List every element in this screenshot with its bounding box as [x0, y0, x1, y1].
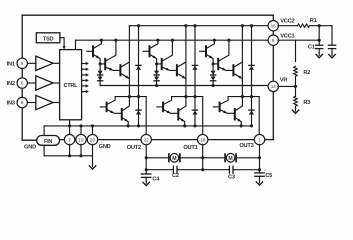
node — external GND junction 19	[79, 154, 82, 157]
transistor Q15 low-side output	[121, 109, 123, 120]
CTRL block U1	[60, 50, 82, 120]
node — VCC1 junction Q31 collector	[213, 39, 216, 42]
wire — IN1 pin to buffer	[27, 62, 36, 64]
diode D1c bias chain	[98, 71, 103, 75]
node — external GND junction 7	[68, 154, 71, 157]
wire — CTRL drive line 4	[82, 79, 87, 81]
wire — VCC1 feed into CTRL	[75, 40, 77, 49]
node — bias bus junction bridge 2	[155, 84, 158, 87]
node — GND bus junction pin7/CTRL	[68, 124, 71, 127]
node — output junction 3b	[250, 95, 253, 98]
wire — output column to OUT pin 1	[145, 97, 147, 135]
op-amp buffer A3 (IN3)	[36, 95, 53, 109]
node — Q25 emitter to GND bus	[183, 124, 186, 127]
arrowhead drive line 4	[86, 79, 89, 82]
wire — C3 to OUT3	[233, 169, 260, 171]
wire — VCC1 to R2	[295, 40, 297, 61]
wire — supply node down to C1	[318, 26, 320, 46]
svg-text:OUT1: OUT1	[183, 145, 197, 151]
resistor R2	[294, 66, 298, 76]
svg-text:C1: C1	[308, 45, 315, 51]
diode D1b lower clamp	[136, 110, 141, 114]
node — VCC2 rail junction bridge 2 clamp	[193, 24, 196, 27]
wire — CTRL drive line 3	[82, 74, 87, 76]
svg-text:5: 5	[21, 61, 24, 66]
wire — CTRL drive line 2	[82, 68, 87, 70]
capacitor C5	[255, 173, 264, 176]
wire — bridge 3 clamp diode column	[251, 26, 253, 126]
node — Q35 emitter to GND bus	[240, 124, 243, 127]
wire — VCC2 rail to pin 16	[129, 25, 268, 27]
pin 1 OUT3	[254, 134, 264, 144]
wire — C1 to ground	[318, 49, 320, 53]
svg-text:IN1: IN1	[7, 61, 15, 67]
svg-text:16: 16	[271, 23, 277, 28]
node — Q15 emitter to GND bus	[127, 124, 130, 127]
pin 18 OUT1	[198, 134, 208, 144]
diode D3d bias chain	[211, 77, 216, 81]
capacitor C1	[316, 45, 323, 48]
wire — CTRL drive line 1	[82, 63, 87, 65]
node — bias bus junction bridge 3	[212, 84, 215, 87]
wire — R1 to supply node	[310, 25, 333, 27]
svg-text:IN2: IN2	[7, 81, 15, 87]
wire — GND bus stub to pin	[69, 126, 71, 135]
motor M2 (OUT1-OUT3)	[225, 154, 236, 163]
transistor Q25 low-side output	[177, 109, 179, 120]
transistor Q34 low-side driver	[213, 106, 219, 108]
svg-text:OUT3: OUT3	[239, 143, 253, 149]
wire — C2 to OUT1	[177, 169, 203, 171]
capacitor C3	[229, 166, 233, 173]
pin 20 GND	[87, 134, 97, 144]
svg-text:C3: C3	[228, 174, 235, 180]
svg-text:1: 1	[258, 137, 261, 142]
wire — pin 7 to external GND bus	[69, 144, 71, 156]
wire — OUT2 to motor M1	[146, 157, 168, 159]
svg-text:OUT2: OUT2	[127, 145, 141, 151]
node — VCC1 junction Q11 collector	[100, 39, 103, 42]
pin 8 IN3	[17, 97, 27, 107]
wire — internal GND bus	[44, 125, 251, 127]
wire — OUT1 to motor M2	[203, 157, 225, 159]
wire — OUT2 column down to C4	[145, 144, 147, 174]
diode D1a upper clamp	[136, 65, 141, 69]
wire — IC outline right edge through VCC/VR pins	[272, 15, 274, 139]
node — OUT1 C2/C3 junction	[201, 168, 204, 171]
transistor Q14 low-side driver	[100, 106, 106, 108]
node — OUT2 C2 junction	[145, 168, 148, 171]
diode D2d bias chain	[154, 77, 159, 81]
capacitor (supply)	[328, 45, 335, 48]
node — VCC1 / supply junction	[318, 39, 321, 42]
svg-text:CTRL: CTRL	[64, 83, 79, 89]
wire — output column to OUT pin 3	[258, 97, 260, 135]
transistor Q32 high-side driver 2	[213, 63, 218, 65]
wire — VR pin to divider tap	[278, 85, 296, 87]
svg-text:GND: GND	[24, 145, 36, 151]
transistor Q33 high-side output	[232, 65, 234, 75]
wire — bridge 2 bias diode chain column	[156, 64, 158, 86]
ground — R3 ground	[292, 108, 298, 113]
wire — IN2 pin to buffer	[27, 82, 36, 84]
wire — GND bus stub to pin	[92, 126, 94, 135]
pin 7 GND	[64, 134, 74, 144]
pin 16 VCC2	[268, 21, 278, 31]
svg-text:R2: R2	[303, 70, 310, 76]
wire — bridge 3 bias diode chain column	[212, 64, 214, 86]
diode D3c bias chain	[211, 71, 216, 75]
node — OUT3 C3 junction	[258, 168, 261, 171]
arrowhead drive line 2	[86, 68, 89, 71]
transistor Q22 high-side driver 2	[157, 63, 162, 65]
wire — IC outline bottom edge through pins	[48, 139, 260, 141]
arrowhead TSD to CTRL	[62, 46, 65, 49]
svg-text:9: 9	[272, 38, 275, 43]
ground — supply ground	[329, 53, 335, 58]
diode D2a upper clamp	[192, 65, 197, 69]
node — output junction 2a	[184, 95, 187, 98]
op-amp buffer A1 (IN1)	[36, 56, 53, 70]
pin 14 VR	[268, 81, 278, 91]
wire — IC outline top edge	[22, 14, 273, 16]
svg-text:7: 7	[68, 137, 71, 142]
node — GND bus junction pin 19	[79, 124, 82, 127]
svg-text:R1: R1	[310, 18, 317, 24]
node — clamp to GND bus bridge 3	[250, 124, 253, 127]
wire — VCC2 pin to R1	[278, 25, 298, 27]
wire — tap to R3	[295, 86, 297, 96]
wire — bridge 1 clamp diode column	[138, 26, 140, 126]
wire — output column to OUT pin 2	[202, 97, 204, 135]
node — clamp to GND bus bridge 2	[193, 124, 196, 127]
wire — supply node down to bulk capacitor	[331, 26, 333, 46]
wire — IN3 pin to buffer	[27, 102, 36, 104]
node — VCC2 rail junction bridge 3 clamp	[250, 24, 253, 27]
svg-text:18: 18	[200, 137, 206, 142]
svg-text:VR: VR	[280, 78, 288, 84]
node — VCC1 junction Q12 collector	[114, 39, 117, 42]
arrowhead drive line 5	[86, 84, 89, 87]
TSD block	[36, 33, 60, 43]
svg-text:VCC2: VCC2	[280, 18, 294, 24]
node — VCC2 rail junction bridge 2	[184, 24, 187, 27]
wire — IC outline left edge through IN pins	[21, 15, 23, 140]
node — output junction 1b	[137, 95, 140, 98]
ground — C4 ground	[143, 180, 149, 185]
wire — motor M2 to OUT3	[236, 157, 259, 159]
svg-text:M: M	[228, 156, 232, 162]
wire — OUT2 to C2	[146, 169, 173, 171]
wire — R3 to ground	[295, 106, 297, 109]
resistor R3	[294, 96, 298, 106]
arrowhead drive line 6	[86, 90, 89, 93]
transistor Q23 high-side output	[176, 65, 178, 75]
wire — outline into FIN tab	[22, 139, 37, 141]
svg-text:M: M	[172, 156, 176, 162]
wire — VCC1 rail to pin 9	[76, 39, 269, 41]
node — OUT1 motor junction	[201, 156, 204, 159]
op-amp buffer A2 (IN2)	[36, 76, 53, 90]
pin 6 IN2	[17, 78, 27, 88]
wire — bridge 2 output node	[172, 96, 203, 98]
arrowhead drive line 3	[86, 73, 89, 76]
wire — bridge 3 high-side collector column	[241, 26, 243, 97]
svg-text:IN3: IN3	[7, 101, 15, 107]
transistor Q35 low-side output	[234, 109, 236, 120]
wire — CTRL block ground stub	[69, 120, 71, 126]
motor M1 (OUT2-OUT1)	[169, 154, 180, 163]
wire — buffer A1 to CTRL	[53, 62, 60, 64]
wire — bridge 1 output node	[115, 96, 146, 98]
wire — bridge 1 bias diode chain column	[99, 64, 101, 86]
wire — buffer A2 to CTRL	[53, 82, 60, 84]
pin 22 OUT2	[141, 134, 151, 144]
diode D1d bias chain	[98, 77, 103, 81]
wire — external GND bus	[44, 155, 92, 157]
ground — C1 ground	[316, 53, 322, 58]
node — GND bus junction pin 20	[91, 124, 94, 127]
wire — CTRL drive line 5	[82, 85, 87, 87]
node — VCC1 junction Q22 collector	[171, 39, 174, 42]
wire — GND bus stub to pin	[80, 126, 82, 135]
node — OUT3 motor junction	[258, 156, 261, 159]
wire — bias bus to VR pin 14	[100, 85, 269, 87]
transistor Q12 high-side driver 2	[100, 63, 105, 65]
node — R2/R3 divider tap	[294, 85, 297, 88]
wire — OUT1 column down	[202, 144, 204, 170]
node — Q21 emitter / diode chain	[155, 62, 158, 65]
wire — VCC1 pin to supply node	[278, 39, 319, 41]
node — output junction 1a	[128, 95, 131, 98]
transistor Q13 high-side output	[119, 65, 121, 75]
svg-text:14: 14	[271, 84, 277, 89]
node — OUT2 motor junction	[145, 156, 148, 159]
diode D3b lower clamp	[249, 110, 254, 114]
capacitor C4	[142, 174, 151, 177]
pin 19 GND	[76, 134, 86, 144]
wire — bulk capacitor to ground	[331, 49, 333, 53]
wire — bridge 1 low-side collector column	[128, 97, 130, 106]
arrowhead drive line 1	[86, 62, 89, 65]
svg-text:TSD: TSD	[43, 36, 54, 42]
node — VCC1 junction Q21 collector	[156, 39, 159, 42]
ground — main supply ground	[89, 164, 95, 169]
node — VCC2 rail junction bridge 3	[241, 24, 244, 27]
node — R1 output junction	[318, 24, 321, 27]
wire — C4 to ground	[145, 177, 147, 180]
svg-text:19: 19	[78, 137, 84, 142]
wire — bridge 2 high-side collector column	[185, 26, 187, 97]
node — Q31 emitter / diode chain	[212, 62, 215, 65]
wire — C5 to ground	[259, 176, 261, 180]
svg-text:R3: R3	[303, 100, 310, 106]
capacitor C2	[173, 166, 177, 173]
wire — bridge 2 low-side collector column	[185, 97, 187, 106]
svg-text:20: 20	[90, 137, 96, 142]
wire — pin 19 to external GND bus	[80, 144, 82, 156]
transistor Q11 high-side driver	[92, 46, 94, 56]
wire — bridge 1 high-side collector column	[128, 26, 130, 97]
wire — motor M1 to OUT1	[180, 157, 202, 159]
node — output junction 2b	[193, 95, 196, 98]
wire — OUT1 to C3	[203, 169, 230, 171]
diode D2b lower clamp	[192, 110, 197, 114]
wire — OUT3 column down to C5	[259, 144, 261, 173]
wire — pin 20 to external ground	[92, 144, 94, 165]
wire — GND bus drop to FIN tab	[43, 126, 45, 136]
wire — CTRL drive line 6	[82, 91, 87, 93]
wire — bridge 2 clamp diode column	[194, 26, 196, 126]
node — clamp to GND bus bridge 1	[137, 124, 140, 127]
FIN heatsink tab	[37, 136, 60, 146]
svg-text:FIN: FIN	[44, 139, 52, 145]
pin 9 VCC1	[268, 35, 278, 45]
wire — bridge 3 output node	[228, 96, 259, 98]
wire — buffer A3 to CTRL	[53, 102, 60, 104]
svg-text:GND: GND	[99, 144, 111, 150]
transistor Q21 high-side driver	[149, 46, 151, 56]
svg-text:22: 22	[144, 137, 150, 142]
pin 5 IN1	[17, 58, 27, 68]
svg-text:8: 8	[21, 100, 24, 105]
wire — FIN tab to external GND bus	[43, 145, 45, 156]
node — VCC1 junction Q32 collector	[227, 39, 230, 42]
svg-text:C4: C4	[152, 176, 160, 182]
svg-text:6: 6	[21, 81, 24, 86]
ground — C5 ground	[256, 180, 262, 185]
node — Q11 emitter / diode chain	[99, 62, 102, 65]
transistor Q24 low-side driver	[157, 106, 163, 108]
wire — outline corner into pin 1	[260, 139, 274, 141]
diode D2c bias chain	[154, 71, 159, 75]
resistor R1	[298, 24, 310, 27]
svg-text:C2: C2	[172, 173, 179, 179]
wire — bridge 3 low-side collector column	[241, 97, 243, 106]
wire — R2 to tap	[295, 76, 297, 86]
svg-text:C5: C5	[265, 173, 272, 179]
wire — TSD output into CTRL	[60, 38, 64, 47]
svg-text:VCC1: VCC1	[280, 34, 294, 40]
node — VCC2 rail junction bridge 1 clamp	[137, 24, 140, 27]
transistor Q31 high-side driver	[205, 46, 207, 56]
diode D3a upper clamp	[249, 65, 254, 69]
node — output junction 3a	[241, 95, 244, 98]
